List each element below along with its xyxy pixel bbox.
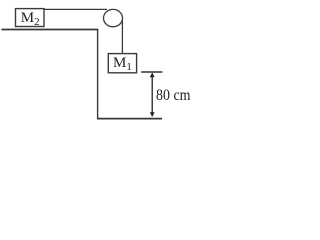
wire: string from M2 over pulley (horizontal segment) xyxy=(45,8,108,10)
wire: table top surface xyxy=(2,29,99,31)
svg-text:80 cm: 80 cm xyxy=(156,87,191,104)
wire: floor / ground line xyxy=(97,118,162,120)
wire: table right edge (vertical) xyxy=(97,29,99,119)
dimension arrow (double-headed, vertical) xyxy=(151,74,153,116)
mass M2 box xyxy=(16,9,45,27)
pulley wheel xyxy=(104,9,123,26)
arrowhead up xyxy=(150,72,155,77)
mass M1 box xyxy=(108,54,136,73)
tick: upper reference line for dimension xyxy=(141,71,162,73)
arrowhead down xyxy=(150,112,155,117)
wire: string from pulley down to M1 (vertical segment) xyxy=(121,17,123,54)
